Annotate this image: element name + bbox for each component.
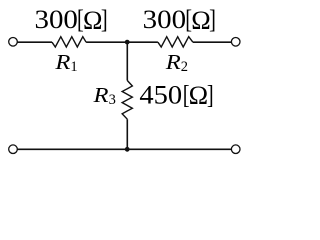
terminal bottom-right: [231, 145, 240, 154]
wire top-middle: [86, 41, 158, 43]
node top junction: [125, 40, 130, 45]
wire vertical upper: [126, 42, 128, 80]
wire top-left: [17, 41, 52, 43]
wire bottom: [17, 148, 231, 150]
wire vertical lower: [126, 119, 128, 149]
terminal bottom-left: [9, 145, 18, 154]
svg-text:R1: R1: [54, 52, 77, 75]
resistor R2: [158, 37, 193, 47]
svg-text:450[Ω]: 450[Ω]: [139, 80, 213, 110]
terminal top-right: [231, 38, 240, 47]
svg-text:300[Ω]: 300[Ω]: [35, 5, 108, 35]
resistor R1: [52, 37, 86, 47]
svg-text:R2: R2: [165, 52, 188, 75]
svg-text:R3: R3: [92, 85, 115, 108]
svg-text:300[Ω]: 300[Ω]: [143, 5, 216, 35]
resistor R3: [122, 81, 132, 120]
node bottom junction: [125, 147, 130, 152]
wire top-right: [193, 41, 232, 43]
terminal top-left: [9, 38, 18, 47]
